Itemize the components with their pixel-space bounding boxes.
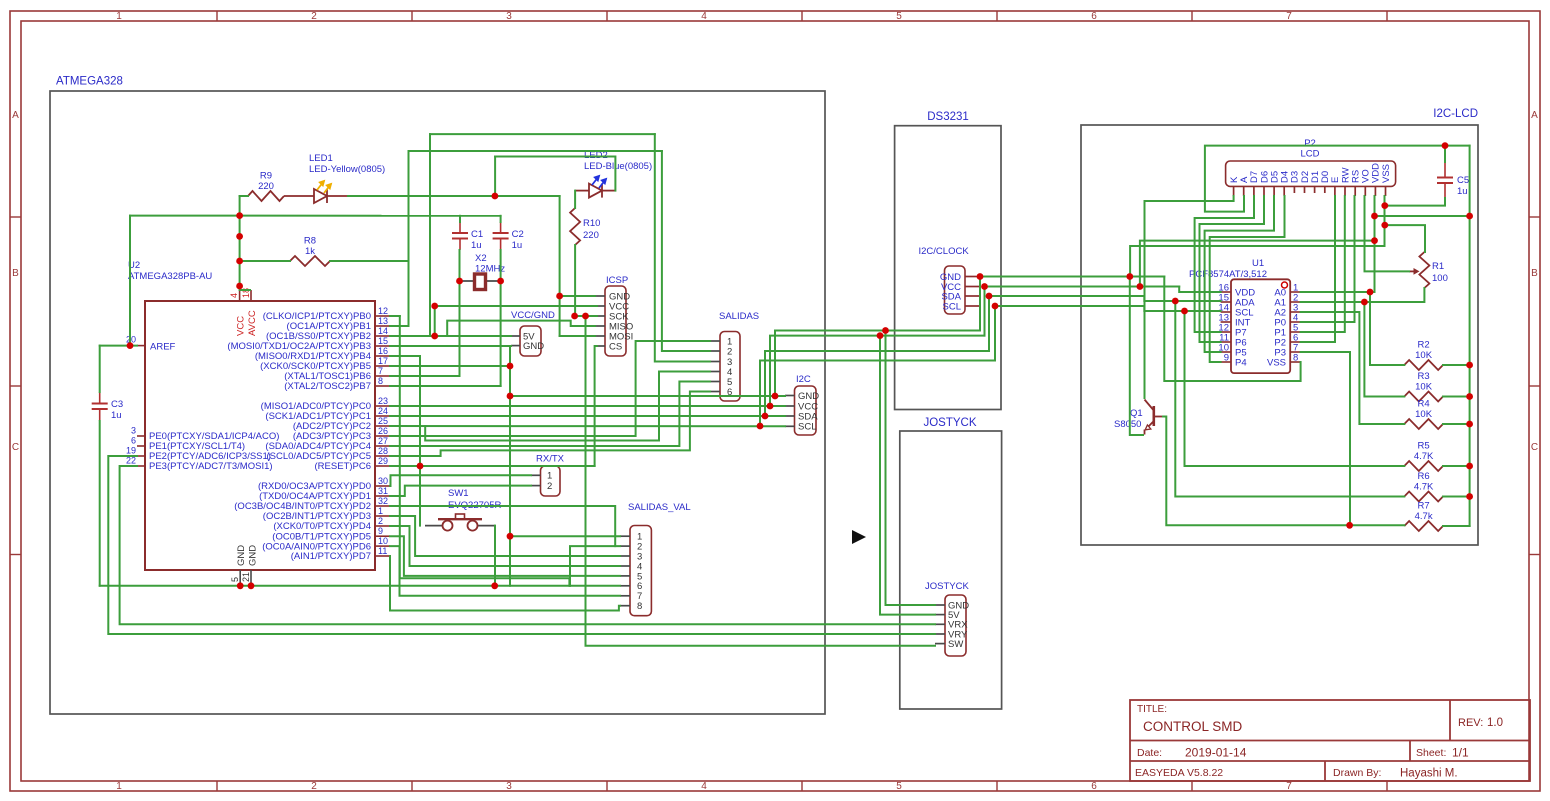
wire A0 to R2 [1370, 292, 1404, 365]
wire C1 X2 column [459, 250, 461, 376]
wire R right lead [1443, 364, 1470, 366]
junction [582, 313, 589, 320]
connector SALIDAS body [720, 332, 740, 402]
wire PC5 to SALIDAS pin6 [390, 392, 710, 457]
svg-text:6: 6 [1091, 11, 1097, 22]
connector P2 pin D1 [1314, 186, 1316, 193]
junction [556, 293, 563, 300]
junction [127, 342, 134, 349]
wire top rail 1 [430, 133, 655, 135]
U1 pin 4 P0 right stub [1290, 321, 1300, 323]
svg-text:2: 2 [311, 11, 317, 22]
connector SALIDAS_VAL pin 8 stub [620, 605, 630, 607]
svg-text:7: 7 [378, 366, 383, 376]
junction [431, 333, 438, 340]
junction [1466, 362, 1473, 369]
resistor R4 10K [1404, 419, 1443, 429]
U2 pin 12 PB0 right stub [375, 315, 390, 317]
U2 pin 30 PD0 right stub [375, 485, 390, 487]
mcu U2 ATMEGA328PB-AU body [145, 301, 375, 570]
wire right vertical to R7 [1443, 146, 1470, 526]
wire A to top rail [1205, 146, 1470, 212]
U2 pin 3 left stub [137, 435, 145, 437]
svg-text:VCC: VCC [236, 316, 247, 336]
wire R right lead [1443, 396, 1470, 398]
connector VCC/GND body [520, 326, 541, 356]
connector JOSTYCK pin SW stub [935, 643, 945, 645]
wire VCC-AVCC tie [240, 289, 251, 291]
U2 pin 10 PD6 right stub [375, 545, 390, 547]
wire R right lead [1443, 525, 1470, 527]
wire SCL to DS3231 [760, 306, 995, 426]
connector I2C/CLOCK pin SDA stub [965, 295, 980, 297]
connector SALIDAS_VAL pin 1 stub [620, 535, 630, 537]
wire PC2 to I2C SCL [390, 425, 785, 427]
connector ICSP pin SCK stub [595, 315, 605, 317]
svg-text:3: 3 [131, 426, 136, 436]
svg-text:PCF8574AT/3,512: PCF8574AT/3,512 [1189, 269, 1267, 280]
wire branch to SALIDAS pin4 [425, 372, 710, 441]
wire PB1 stub wire [390, 325, 409, 327]
svg-text:SW1: SW1 [448, 488, 469, 499]
wire PD2 to SALIDAS_VAL pin2 [390, 506, 615, 546]
wire GND to SALIDAS_VAL pin1 [510, 535, 620, 537]
svg-text:1k: 1k [305, 246, 315, 257]
wire PD4 to SALIDAS_VAL pin4 [390, 526, 620, 566]
junction [1126, 273, 1133, 280]
crystal X2 12MHz [460, 280, 501, 282]
U2 pin 2 PD4 right stub [375, 525, 390, 527]
U1 pin 6 P2 right stub [1290, 341, 1300, 343]
connector ICSP pin GND stub [595, 295, 605, 297]
junction [767, 403, 774, 410]
JOSTYCK group box [900, 431, 1002, 709]
wire GND block column [509, 346, 511, 586]
svg-text:P2: P2 [1304, 138, 1316, 149]
svg-text:9: 9 [1224, 353, 1229, 364]
wire PE3 to JOSTYCK VRX [120, 466, 935, 624]
wire AREF vertical [129, 216, 131, 346]
wire VO to R1 wiper [1365, 196, 1410, 271]
svg-text:DS3231: DS3231 [927, 111, 969, 123]
wire AREF to VCC rail [130, 215, 240, 217]
wire P3 to R7 row [1301, 352, 1350, 525]
svg-text:1.0: 1.0 [1487, 717, 1503, 729]
svg-text:C5: C5 [1457, 175, 1469, 186]
connector RX/TX pin 1 stub [531, 474, 541, 476]
wire R right lead [1443, 423, 1470, 425]
svg-text:U1: U1 [1252, 258, 1264, 269]
wire C1 top drop [459, 216, 461, 222]
connector SALIDAS_VAL pin 5 stub [620, 575, 630, 577]
U1 pin 13 INT left stub [1221, 321, 1231, 323]
svg-text:GND: GND [523, 341, 544, 352]
junction [1367, 289, 1374, 296]
U2 pin 8 PB7 right stub [375, 385, 390, 387]
frame column ticks [217, 11, 1387, 791]
U2 pin 7 PB6 right stub [375, 375, 390, 377]
svg-text:C3: C3 [111, 399, 123, 410]
junction [236, 233, 243, 240]
svg-text:8: 8 [1293, 353, 1298, 364]
junction [1381, 202, 1388, 209]
svg-text:I2C-LCD: I2C-LCD [1433, 108, 1478, 120]
wire VCC row to LCD block [985, 286, 1180, 288]
svg-text:8: 8 [637, 601, 642, 612]
led LED2 LED-Blue(0805) [575, 190, 589, 192]
connector I2C pin SCL stub [785, 425, 795, 427]
svg-text:11: 11 [378, 546, 387, 556]
wire PD3 to SALIDAS_VAL pin3 [390, 516, 620, 556]
junction [507, 363, 514, 370]
capacitor C5 1u [1437, 177, 1453, 179]
wire PD7 to SALIDAS_VAL pin8 [390, 556, 620, 611]
wire C2 top drop [500, 216, 502, 222]
junction [507, 533, 514, 540]
svg-text:SCL: SCL [798, 422, 816, 433]
connector I2C pin SDA stub [785, 415, 795, 417]
svg-text:SALIDAS_VAL: SALIDAS_VAL [628, 502, 691, 513]
svg-text:6: 6 [131, 436, 136, 446]
wire A1 to R3 [1364, 302, 1404, 397]
svg-text:30: 30 [378, 476, 388, 486]
U1 pin 16 VDD left stub [1221, 291, 1231, 293]
svg-text:CONTROL SMD: CONTROL SMD [1143, 719, 1243, 734]
svg-text:5: 5 [896, 781, 902, 792]
svg-text:A: A [1531, 110, 1538, 121]
connector SALIDAS_VAL pin 3 stub [620, 555, 630, 557]
connector P2 pin VDD [1374, 186, 1376, 196]
svg-text:4: 4 [701, 11, 707, 22]
junction [236, 258, 243, 265]
svg-text:R4: R4 [1418, 399, 1430, 410]
transistor Q1 S8050 NPN [1153, 406, 1156, 426]
svg-text:24: 24 [378, 406, 388, 416]
svg-text:LED-Blue(0805): LED-Blue(0805) [584, 161, 652, 172]
svg-text:B: B [1531, 268, 1538, 279]
U2 pin 6 left stub [137, 445, 145, 447]
junction [1381, 222, 1388, 229]
svg-text:Date:: Date: [1137, 747, 1162, 759]
svg-text:JOSTYCK: JOSTYCK [923, 417, 976, 429]
U2 pin 19 left stub [137, 455, 145, 457]
svg-text:9: 9 [378, 526, 383, 536]
svg-text:2: 2 [311, 781, 317, 792]
junction [882, 327, 889, 334]
U2 pin 24 PC1 right stub [375, 415, 390, 417]
junction [1361, 299, 1368, 306]
junction [1466, 393, 1473, 400]
svg-text:CS: CS [609, 341, 622, 352]
svg-text:R2: R2 [1418, 340, 1430, 351]
svg-text:2019-01-14: 2019-01-14 [1185, 746, 1247, 760]
U1 pin 10 P5 left stub [1221, 351, 1231, 353]
svg-text:3: 3 [506, 11, 512, 22]
svg-text:15: 15 [378, 336, 388, 346]
svg-text:4.7k: 4.7k [1415, 511, 1433, 522]
pushbutton SW1 EVQ22705R [425, 525, 442, 527]
wire SDA to DS3231 [765, 296, 989, 416]
wire C3 bottom to GND rail [99, 421, 101, 586]
I2C-LCD group box [1081, 125, 1478, 545]
svg-text:I2C: I2C [796, 374, 811, 385]
U1 pin 9 P4 left stub [1221, 361, 1231, 363]
svg-text:25: 25 [378, 416, 388, 426]
svg-text:SALIDAS: SALIDAS [719, 311, 759, 322]
svg-text:P4: P4 [1235, 357, 1247, 368]
svg-text:Drawn By:: Drawn By: [1333, 767, 1381, 779]
svg-text:ATMEGA328PB-AU: ATMEGA328PB-AU [128, 271, 212, 282]
U2 pin 16 PB4 right stub [375, 355, 390, 357]
svg-text:17: 17 [378, 356, 388, 366]
svg-text:(RESET)PC6: (RESET)PC6 [315, 461, 371, 472]
connector I2C/CLOCK pin GND stub [965, 276, 980, 278]
wire R right lead [1443, 496, 1470, 498]
wire PC1 to I2C SDA [390, 415, 785, 417]
resistor R8 1k [290, 256, 330, 266]
svg-text:X2: X2 [475, 253, 487, 264]
svg-text:27: 27 [378, 436, 388, 446]
ic U1 PCF8574AT body [1231, 279, 1290, 373]
wire A2 to R4 [1301, 312, 1405, 424]
connector SALIDAS_VAL body [630, 526, 651, 616]
U2 pin 1 PD3 right stub [375, 515, 390, 517]
connector SALIDAS_VAL pin 6 stub [620, 585, 630, 587]
connector ICSP pin MOSI stub [595, 335, 605, 337]
wire SW1 to GND rail [494, 526, 496, 586]
junction [237, 582, 244, 589]
junction [877, 332, 884, 339]
U1 pin 11 P6 left stub [1221, 341, 1231, 343]
svg-text:4.7K: 4.7K [1414, 451, 1434, 462]
U2 pin 21 GND bottom stub [250, 570, 252, 586]
wire PD0 to RXTX 1 [390, 475, 531, 486]
connector P2 pin D6 [1263, 186, 1265, 196]
U2 pin 5 GND bottom stub [239, 570, 241, 586]
capacitor C1 1u [452, 232, 468, 234]
svg-text:PE3(PTCY/ADC7/T3/MOSI1): PE3(PTCY/ADC7/T3/MOSI1) [149, 461, 273, 472]
wire C3 top wire [99, 346, 101, 392]
junction [1466, 463, 1473, 470]
wire reset to ICSP CS [595, 346, 597, 466]
U1 pin1 indicator circle [1282, 282, 1288, 288]
svg-text:LED-Yellow(0805): LED-Yellow(0805) [309, 164, 385, 175]
connector I2C/CLOCK pin VCC stub [965, 286, 980, 288]
svg-text:(XTAL2/TOSC2)PB7: (XTAL2/TOSC2)PB7 [284, 381, 371, 392]
svg-text:R6: R6 [1418, 471, 1430, 482]
junction [1466, 493, 1473, 500]
wire R8 left lead [240, 260, 290, 262]
svg-text:5: 5 [896, 11, 902, 22]
svg-text:1: 1 [116, 11, 122, 22]
connector P2 pin RW [1344, 186, 1346, 196]
resistor R9 220 [248, 191, 284, 201]
junction [417, 463, 424, 470]
wire D4 to U1 P4 [1210, 196, 1285, 362]
U2 pin 28 PC5 right stub [375, 455, 390, 457]
junction [456, 278, 463, 285]
wire PB7 row [390, 385, 501, 387]
U1 pin 3 A2 right stub [1290, 311, 1300, 313]
wire rail1 to SALIDAS pin3 [655, 134, 710, 361]
U2 pin 25 PC2 right stub [375, 425, 390, 427]
connector P2 pin E [1334, 186, 1336, 196]
connector I2C pin GND stub [785, 395, 795, 397]
svg-text:4.7K: 4.7K [1414, 482, 1434, 493]
wire VCC branch to JOSTYCK 5V [880, 336, 935, 615]
wire pullup to R5 [1185, 311, 1405, 466]
U2 pin 13 PB1 right stub [375, 325, 390, 327]
svg-text:SW: SW [948, 639, 963, 650]
connector JOSTYCK pin VRY stub [935, 633, 945, 635]
svg-text:22: 22 [126, 456, 136, 466]
svg-text:GND: GND [248, 545, 259, 566]
svg-text:23: 23 [378, 396, 388, 406]
svg-text:GND: GND [236, 545, 247, 566]
wire rail1 left vertical [429, 134, 431, 336]
wire SCK to JOSTYCK SW [586, 316, 936, 646]
wire VCC column [239, 196, 241, 290]
svg-text:10: 10 [378, 536, 388, 546]
junction [992, 303, 999, 310]
wire E to U1 P2 [1301, 196, 1335, 342]
wire rail2 to SALIDAS pin2 [662, 151, 710, 351]
connector SALIDAS pin 4 stub [710, 371, 720, 373]
annotation arrow [852, 530, 866, 544]
svg-text:R3: R3 [1418, 371, 1430, 382]
wire ICSP GND row [560, 295, 595, 297]
connector P2 LCD header body [1226, 161, 1396, 186]
wire ICSP MISO jog [447, 321, 595, 336]
wire top rail 2 [409, 150, 662, 152]
U1 pin 12 P7 left stub [1221, 331, 1231, 333]
connector P2 pin VSS [1385, 186, 1387, 196]
wire PD6 to SALIDAS_VAL pin7 [390, 546, 620, 596]
connector JOSTYCK pin GND stub [935, 604, 945, 606]
svg-text:220: 220 [583, 230, 599, 241]
wire PB0 branch to SALIDAS_VAL pin6 [400, 316, 620, 586]
U2 pin 20 AREF left stub [137, 345, 145, 347]
svg-text:C: C [1531, 442, 1538, 453]
wire GND row to I2C GND [510, 395, 785, 397]
wire PB3 to GND row [390, 345, 511, 347]
connector VCC/GND pin 5V stub [511, 335, 520, 337]
svg-text:1/1: 1/1 [1452, 746, 1469, 760]
U2 pin 32 PD2 right stub [375, 505, 390, 507]
junction [491, 582, 498, 589]
junction [772, 393, 779, 400]
wire ICSP VCC drop to PB2 row [434, 306, 436, 336]
connector SALIDAS pin 1 stub [710, 340, 720, 342]
U2 pin 15 PB3 right stub [375, 345, 390, 347]
wire SDA to U1 ADA [989, 296, 1221, 301]
junction [1442, 142, 1449, 149]
svg-text:5: 5 [230, 577, 240, 582]
svg-text:16: 16 [378, 346, 388, 356]
svg-text:1u: 1u [512, 240, 523, 251]
svg-text:S8050: S8050 [1114, 419, 1141, 430]
wire GND to U1 VSS [1164, 277, 1300, 382]
wire R9 left lead [240, 195, 248, 197]
wire GND to Q1 emitter [1130, 277, 1143, 436]
wire D7 to U1 P7 [1195, 196, 1254, 332]
svg-text:Sheet:: Sheet: [1416, 747, 1446, 759]
U2 pin 4 VCC top stub [239, 290, 241, 301]
U1 pin 1 A0 right stub [1290, 291, 1300, 293]
wire PB5 row [390, 365, 510, 367]
svg-text:6: 6 [1091, 781, 1097, 792]
wire K to Q1 collector [1145, 196, 1234, 398]
wire PC4 to SALIDAS pin5 [390, 382, 710, 447]
U2 pin 22 left stub [137, 465, 145, 467]
svg-text:10K: 10K [1415, 409, 1433, 420]
junction [236, 283, 243, 290]
wire LED1 cathode run [348, 195, 560, 197]
ATMEGA328 group box [50, 91, 825, 714]
connector P2 pin VO [1364, 186, 1366, 196]
svg-text:1u: 1u [1457, 186, 1468, 197]
wire GND row to LCD block [980, 276, 1164, 278]
wire GND rail [100, 585, 570, 587]
wire LED2 loop left vertical [494, 157, 496, 197]
svg-text:LCD: LCD [1300, 149, 1319, 160]
svg-text:1: 1 [116, 781, 122, 792]
potentiometer R1 100 [1419, 252, 1429, 288]
wire PE2 to JOSTYCK VRY [108, 456, 935, 634]
junction [571, 313, 578, 320]
svg-text:VSS: VSS [1267, 357, 1286, 368]
svg-text:100: 100 [1432, 273, 1448, 284]
connector P2 pin A [1243, 186, 1245, 196]
junction [1181, 308, 1188, 315]
connector ICSP pin CS stub [595, 345, 605, 347]
connector P2 pin D3 [1293, 186, 1295, 193]
svg-text:ATMEGA328: ATMEGA328 [56, 76, 123, 88]
svg-text:1: 1 [378, 506, 383, 516]
svg-text:C1: C1 [471, 229, 483, 240]
resistor R6 4.7K [1404, 492, 1443, 502]
svg-text:220: 220 [258, 181, 274, 192]
connector P2 pin RS [1354, 186, 1356, 196]
wire C2 X2 column [500, 250, 502, 386]
wire PC6 reset row [390, 465, 595, 467]
wire PB6 row [390, 375, 460, 377]
connector RX/TX body [541, 466, 561, 496]
junction [1466, 213, 1473, 220]
wire GND net over [775, 331, 980, 397]
wire C5 top wire [1444, 146, 1446, 162]
wire R10 bottom to SCK row [574, 245, 576, 316]
svg-text:10K: 10K [1415, 382, 1433, 393]
connector SALIDAS pin 3 stub [710, 361, 720, 363]
svg-text:R10: R10 [583, 218, 600, 229]
connector JOSTYCK body [945, 595, 966, 656]
connector SALIDAS_VAL pin 2 stub [620, 545, 630, 547]
connector I2C pin VCC stub [785, 405, 795, 407]
svg-text:AREF: AREF [150, 342, 176, 353]
wire pullup to R6 [1175, 301, 1404, 497]
wire PD1 to RXTX 2 [390, 486, 531, 496]
connector SALIDAS_VAL pin 4 stub [620, 565, 630, 567]
U1 pin 2 A1 right stub [1290, 301, 1300, 303]
connector I2C/CLOCK pin SCL stub [965, 305, 980, 307]
connector SALIDAS pin 2 stub [710, 350, 720, 352]
svg-text:GND: GND [798, 391, 819, 402]
svg-text:2: 2 [378, 516, 383, 526]
U2 pin 31 PD1 right stub [375, 495, 390, 497]
svg-text:32: 32 [378, 496, 388, 506]
wire PC0 to I2C VCC [390, 405, 785, 407]
